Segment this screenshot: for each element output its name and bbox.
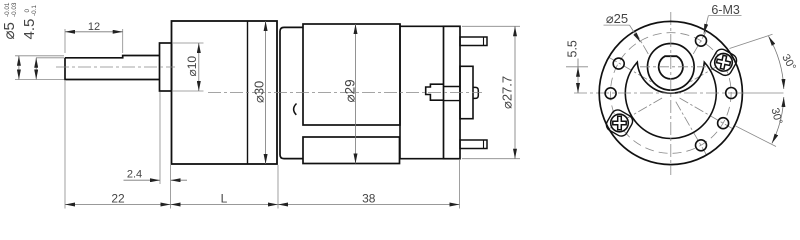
M3 hole 180deg <box>605 88 616 99</box>
dim phi5 line <box>18 56 20 80</box>
svg-text:-0.01: -0.01 <box>4 2 11 17</box>
svg-text:⌀30: ⌀30 <box>252 81 267 103</box>
svg-text:⌀10: ⌀10 <box>185 56 199 77</box>
shaft boss <box>648 44 695 91</box>
rear pin <box>473 87 478 98</box>
M3 hole 300deg <box>696 140 707 151</box>
svg-text:0: 0 <box>24 9 31 13</box>
shaft axis ext left <box>566 66 588 68</box>
svg-text:30°: 30° <box>768 107 784 126</box>
endcap d27.7 <box>444 26 461 158</box>
shaft horizontal centerline <box>640 66 706 68</box>
angle dim lower extension <box>735 126 776 147</box>
svg-text:⌀25: ⌀25 <box>606 11 628 26</box>
M3 hole 60deg <box>696 35 707 46</box>
svg-text:38: 38 <box>362 191 376 205</box>
label 30 upper <box>779 52 798 72</box>
shaft hole with flat <box>659 56 683 79</box>
svg-text:-0.1: -0.1 <box>31 5 38 16</box>
svg-text:22: 22 <box>111 191 125 205</box>
dim phi5 extension lines <box>15 55 64 57</box>
svg-text:2.4: 2.4 <box>127 169 142 181</box>
angle dim horizontal extension <box>737 92 784 94</box>
svg-text:5.5: 5.5 <box>566 40 580 57</box>
screw recess 210deg <box>604 108 635 139</box>
M3 hole 150deg <box>613 58 624 69</box>
motor can lower band <box>303 137 400 164</box>
svg-text:L: L <box>221 191 228 205</box>
shaft with flat <box>65 56 160 80</box>
svg-text:⌀5: ⌀5 <box>1 22 18 39</box>
label 30 lower <box>768 107 784 126</box>
vertical centerline <box>670 12 672 175</box>
bottom extension lines <box>64 81 66 209</box>
dim 5.5 <box>566 40 580 57</box>
motor front cap <box>280 27 303 158</box>
gearbox body d30 <box>172 21 278 164</box>
svg-text:12: 12 <box>88 21 100 33</box>
screw recess 30deg <box>708 47 739 78</box>
svg-text:6-M3: 6-M3 <box>711 3 740 17</box>
horizontal centerline <box>574 92 737 94</box>
boss d10 <box>160 43 172 91</box>
gearbox seam <box>247 21 249 164</box>
crimp ring <box>400 24 444 159</box>
dim phi5 labels <box>1 2 18 39</box>
cap dimple <box>294 104 297 115</box>
svg-text:⌀27.7: ⌀27.7 <box>500 76 515 109</box>
dim 4.5 line <box>35 58 37 80</box>
bolt circle d25 dashed <box>610 33 731 154</box>
outer circle d30 <box>599 21 742 164</box>
svg-text:30°: 30° <box>779 52 798 72</box>
screw 30deg <box>713 52 734 73</box>
dim 4.5 labels <box>21 5 38 40</box>
dim phi30 <box>252 81 267 103</box>
M3 hole 0deg <box>726 88 737 99</box>
rear bearing plug <box>426 84 444 100</box>
rear neck <box>444 87 461 101</box>
M3 hole 330deg <box>718 118 729 129</box>
terminal tab top <box>460 37 487 46</box>
centerline shaft axis <box>56 66 175 68</box>
dim phi27.7 <box>500 76 515 109</box>
centerline motor axis <box>208 92 482 94</box>
rear plate <box>460 66 473 118</box>
angle arc lower 30deg <box>772 97 784 143</box>
radial spokes <box>607 29 734 156</box>
angle dim extension over screw <box>730 34 773 48</box>
angle arc upper 30deg <box>769 36 784 89</box>
dim phi29 <box>343 79 358 102</box>
crescent gear <box>625 62 716 138</box>
screw 210deg <box>611 114 629 132</box>
svg-text:4.5: 4.5 <box>21 19 38 40</box>
motor can upper <box>303 24 400 125</box>
dim phi10 <box>185 56 199 77</box>
svg-text:-0.03: -0.03 <box>11 2 18 17</box>
terminal tab bottom <box>460 140 487 149</box>
